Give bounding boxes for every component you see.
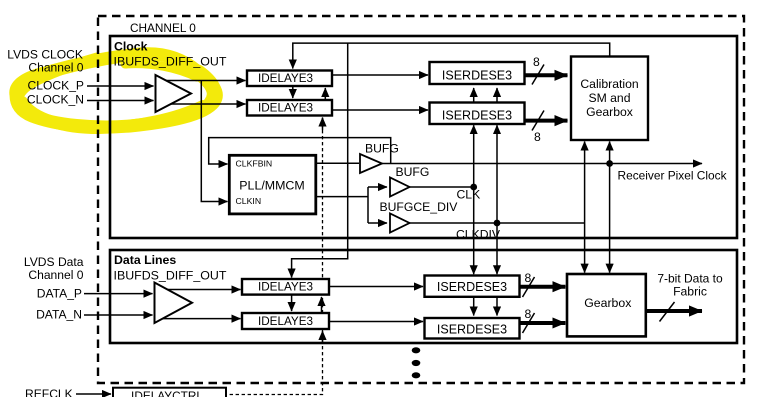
ISERDESE3 box 2 (data) [425,318,520,339]
svg-text:BUFGCE_DIV: BUFGCE_DIV [380,200,459,214]
IDELAYE3 box 2 (data) [242,313,329,329]
BUFG 1 triangle [360,154,382,173]
svg-text:8: 8 [533,55,540,69]
wire CLOCK_N into buffer [87,100,154,102]
arrow IDELAYE3 1 to IDELAYE3 2 (clock) [292,86,294,98]
arrow delay-control into IDELAYE3 2 (data) bottom [322,331,324,343]
node dot CLK [470,184,477,191]
wire buffer O down to PLL CLKIN [201,81,227,202]
svg-text:REFCLK: REFCLK [25,387,73,397]
wire IDELAYE3 2 to ISERDESE3 2 (clock) [332,109,428,111]
bus slash 2 (data) [523,313,535,333]
PLL/MMCM box [229,155,315,214]
arrow IDELAYE3 2 up to IDELAYE3 1 (clock) [324,88,326,100]
Calibration SM and Gearbox box [571,57,648,141]
wire feedback branch down to data section [292,43,348,277]
bus data ISERDESE3 2 to Gearbox, width 8 [521,321,566,325]
bus slash 1 (data) [523,277,535,297]
svg-text:8: 8 [525,307,532,321]
svg-text:Data Lines: Data Lines [114,253,176,267]
wire data IDELAYE3 1 to ISERDESE3 1 [329,286,423,288]
wire buffer O to IDELAYE3 1 [163,80,246,82]
node dot on pixel clock line [606,160,613,167]
svg-text:CLKIN: CLKIN [236,196,262,206]
svg-text:CLKDIV: CLKDIV [456,228,501,242]
IBUFDS_DIFF_OUT buffer triangle (clock) [156,75,192,112]
IBUFDS_DIFF_OUT buffer triangle (data) [155,283,193,324]
bus Gearbox out 7-bit [646,309,702,313]
wire DATA_N into buffer [84,314,153,316]
arrow delay-control into IDELAYE3 2 (clock) bottom [322,118,324,131]
wire REFCLK into IDELAYCTRL [76,393,111,395]
wire CLK up into clock ISERDESE3 2 [473,125,475,187]
svg-text:IBUFDS_DIFF_OUT: IBUFDS_DIFF_OUT [114,269,227,283]
Gearbox box [567,274,646,336]
wire CLKDIV down to Gearbox [584,223,586,273]
IDELAYE3 box 2 (clock) [247,100,332,116]
wire CLK [410,186,474,188]
ISERDESE3 box 1 (clock) [430,62,525,84]
svg-text:CLOCK_P: CLOCK_P [28,79,84,93]
svg-text:IDELAYE3: IDELAYE3 [258,315,313,328]
wire data buffer OB to IDELAYE3 2 [163,318,241,320]
svg-text:Calibration: Calibration [580,77,638,91]
arrow CLKDIV data ISERDESE3 1 to 2 [496,297,498,316]
IDELAYE3 box 1 (data) [242,279,329,295]
wire CLKDIV down into data ISERDESE3 1 [496,223,498,274]
svg-text:IDELAYE3: IDELAYE3 [258,72,313,85]
node dot CLKDIV [494,220,501,227]
arrow IDELAYE3 2 up to IDELAYE3 1 (data) [321,297,323,313]
svg-text:ISERDESE3: ISERDESE3 [442,109,512,123]
wire PLL CLKOUT [315,196,368,198]
svg-text:IDELAYE3: IDELAYE3 [258,102,313,115]
wire IDELAYE3 1 to ISERDESE3 1 (clock) [332,74,428,76]
wire calibration feedback top [293,43,610,68]
wire DATA_P into buffer [84,293,153,295]
BUFGCE_DIV triangle [390,214,410,233]
wire CLKOUT branch vertical [367,187,369,223]
svg-text:IDELAYE3: IDELAYE3 [258,281,313,294]
svg-text:Fabric: Fabric [673,285,707,299]
arrow CLK clock ISERDESE3 2 to 1 [473,88,475,103]
svg-text:LVDS CLOCK: LVDS CLOCK [7,47,83,61]
bus ISERDESE3 2 to Calibration, width 8 [524,119,568,123]
svg-text:CLKFBIN: CLKFBIN [236,158,273,168]
wire buffer OB to IDELAYE3 2 [163,103,246,105]
wire pixel clock down to Gearbox [609,164,611,273]
svg-text:Gearbox: Gearbox [586,105,633,119]
svg-text:CLK: CLK [457,188,481,202]
bus ISERDESE3 1 to Calibration, width 8 [524,73,568,77]
wire pixel clock up to Calibration [609,142,611,164]
bus slash (output) [660,302,675,322]
bus slash 1 (clock) [532,65,544,85]
Data Lines section box [110,250,737,343]
wire data buffer O to IDELAYE3 1 [163,289,241,291]
svg-text:Receiver Pixel Clock: Receiver Pixel Clock [618,169,727,183]
svg-text:IBUFDS_DIFF_OUT: IBUFDS_DIFF_OUT [114,55,227,69]
wire data IDELAYE3 2 to ISERDESE3 2 [329,321,423,323]
svg-text:SM and: SM and [588,91,630,105]
svg-text:ISERDESE3: ISERDESE3 [442,68,512,82]
svg-text:IDELAYCTRL: IDELAYCTRL [131,389,203,397]
dashed outer border CHANNEL 0 [98,16,744,383]
svg-text:PLL/MMCM: PLL/MMCM [239,178,304,192]
svg-text:ISERDESE3: ISERDESE3 [437,323,507,337]
arrow CLK data ISERDESE3 1 to 2 [473,297,475,316]
ellipsis dots [412,347,421,353]
bus slash 2 (clock) [532,111,544,131]
svg-text:DATA_N: DATA_N [36,308,82,322]
svg-text:Clock: Clock [114,40,148,54]
wire CLKDIV up to Calibration [584,142,586,224]
ISERDESE3 box 2 (clock) [430,103,525,125]
svg-text:CHANNEL 0: CHANNEL 0 [130,21,196,35]
svg-text:8: 8 [525,271,532,285]
svg-text:BUFG: BUFG [396,165,430,179]
arrow into BUFG 2 [368,186,387,188]
IDELAYE3 box 1 (clock) [247,71,332,87]
arrow IDELAYE3 1 to IDELAYE3 2 (data) [291,295,293,311]
wire CLKDIV [410,222,585,224]
ISERDESE3 box 1 (data) [425,276,520,297]
wire PLL CLKFBOUT to BUFG 1 [315,162,359,164]
svg-text:LVDS Data: LVDS Data [24,255,84,269]
BUFG 2 triangle [390,178,410,197]
svg-text:DATA_P: DATA_P [37,287,82,301]
PLL feedback wire via BUFG [209,138,391,164]
svg-text:Gearbox: Gearbox [584,296,632,310]
svg-text:Channel 0: Channel 0 [28,61,83,75]
svg-text:7-bit Data to: 7-bit Data to [657,272,723,286]
yellow highlighter loop annotation [16,54,216,128]
arrow CLKDIV clock ISERDESE3 2 to 1 [496,88,498,103]
svg-text:CLOCK_N: CLOCK_N [27,93,84,107]
bus data ISERDESE3 1 to Gearbox, width 8 [521,285,566,289]
dashed delay-control line from IDELAYCTRL [227,118,323,395]
wire CLOCK_P into buffer [87,85,154,87]
wire Receiver Pixel Clock [382,163,702,165]
svg-text:BUFG: BUFG [365,142,399,156]
arrow into BUFGCE_DIV [368,222,387,224]
wire CLKDIV up into clock ISERDESE3 2 [496,125,498,223]
svg-text:8: 8 [534,130,541,144]
svg-text:ISERDESE3: ISERDESE3 [437,280,507,294]
svg-text:Channel 0: Channel 0 [28,268,83,282]
IDELAYCTRL box [113,388,226,397]
Clock section box [110,36,737,238]
wire CLK down into data ISERDESE3 1 [473,187,475,274]
